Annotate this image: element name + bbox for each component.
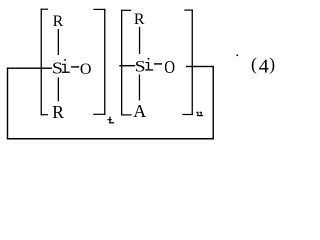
bracket [ of unit t: top serif xyxy=(41,9,48,10)
wire: outer loop left vertical xyxy=(7,68,8,140)
subscript t: stem xyxy=(109,117,110,124)
wire: bond Si to R (unit t) xyxy=(58,77,59,101)
bracket [ of unit t: bottom serif xyxy=(41,114,48,115)
atom label i of Si (unit t): top bar xyxy=(62,64,65,65)
atom label i of Si (unit t): stem xyxy=(64,64,65,72)
wire: bond Si to A (unit u) xyxy=(139,74,140,100)
atom label i of Si (unit t): base serif xyxy=(62,72,70,73)
svg-text:R: R xyxy=(52,102,64,122)
atom label i of Si (unit u): top bar xyxy=(145,62,148,63)
atom label i of Si (unit t): dot xyxy=(64,59,66,61)
subscript u: left top serif xyxy=(196,112,198,113)
wire: bond from O of unit 2 to outer loop (right horizontal) xyxy=(186,66,214,67)
svg-text:R: R xyxy=(53,13,64,30)
subscript t: crossbar xyxy=(107,119,111,120)
bracket [ of unit u: bottom serif xyxy=(121,114,132,115)
svg-text:): ) xyxy=(269,54,275,74)
svg-text:(: ( xyxy=(251,54,257,74)
bracket [ of unit u: vertical xyxy=(121,10,122,116)
wire: outer loop right vertical xyxy=(213,66,214,139)
stray dot xyxy=(237,55,239,57)
bracket ] of unit t: vertical xyxy=(104,9,105,115)
subscript u: right top serif xyxy=(200,112,202,113)
bracket [ of unit u: top serif xyxy=(121,10,131,11)
bracket [ of unit t: vertical xyxy=(41,9,42,116)
wire: bond bracket to Si (unit u) xyxy=(119,65,135,66)
svg-text:S: S xyxy=(135,58,146,75)
svg-text:O: O xyxy=(80,61,92,78)
wire: outer loop bottom horizontal xyxy=(7,138,214,140)
bond hyphen Si-O (unit t) xyxy=(71,66,79,67)
svg-text:A: A xyxy=(133,101,146,121)
atom label i of Si (unit u): dot xyxy=(148,58,150,60)
wire: bond into Si of unit 1 (left horizontal) xyxy=(7,68,52,69)
atom label i of Si (unit u): stem xyxy=(148,62,149,69)
wire: bond R to Si (unit u) xyxy=(139,27,140,54)
svg-text:R: R xyxy=(134,11,145,28)
bracket ] of unit u: vertical xyxy=(192,10,193,116)
atom label i of Si (unit u): base serif xyxy=(145,69,153,70)
bond hyphen Si-O (unit u) xyxy=(154,63,162,64)
svg-text:4: 4 xyxy=(259,55,269,77)
subscript t: foot xyxy=(109,122,114,123)
subscript u: bottom bar xyxy=(197,115,203,116)
subscript u: left stem xyxy=(197,112,198,116)
bracket ] of unit t: top serif xyxy=(93,9,105,10)
wire: bond R to Si (unit t) xyxy=(58,29,59,55)
svg-text:O: O xyxy=(164,57,175,77)
subscript u: right stem xyxy=(201,112,202,116)
svg-text:S: S xyxy=(52,59,63,78)
bracket ] of unit t: bottom serif xyxy=(93,114,105,115)
bracket ] of unit u: bottom serif xyxy=(182,114,193,115)
bracket ] of unit u: top serif xyxy=(184,10,193,11)
